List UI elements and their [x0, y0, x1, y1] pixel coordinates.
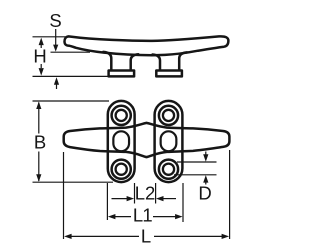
ground line [33, 75, 110, 77]
L2 left arrow stem [112, 198, 129, 200]
hole bottom-right outer [159, 160, 178, 179]
H dim line upper stub [40, 44, 42, 48]
B dim line lower [38, 152, 40, 182]
left oval cutout [113, 131, 129, 151]
hole top-left inner [116, 110, 127, 121]
thin dimension / extension lines [33, 29, 230, 239]
right leg left side [153, 54, 161, 70]
D down arrow [203, 154, 208, 162]
D bottom arrow stem [205, 182, 207, 185]
H down arrow [39, 68, 44, 76]
L1 dim line left [112, 216, 131, 218]
svg-text:D: D [198, 183, 211, 204]
svg-text:S: S [49, 10, 61, 31]
L1 right ext line [182, 183, 184, 222]
svg-text:L2: L2 [135, 183, 156, 204]
L left ext line [63, 152, 65, 239]
plan-view horn bar [64, 123, 230, 157]
D up arrow [203, 175, 208, 183]
left leg right side [131, 54, 139, 70]
L1 left arrow [108, 214, 116, 219]
L dim line left [70, 235, 139, 237]
L right ext line [229, 150, 231, 239]
svg-text:L1: L1 [133, 205, 152, 226]
svg-text:L: L [141, 226, 151, 247]
B up arrow [36, 102, 41, 110]
L left arrow [64, 234, 72, 239]
H up arrow [39, 38, 44, 46]
B dim line upper [38, 103, 40, 134]
left foot [109, 71, 135, 77]
B top ext line [33, 100, 110, 102]
B down arrow [36, 174, 41, 182]
L2 right arrow [156, 196, 164, 201]
L dim line right [154, 235, 223, 237]
svg-text:B: B [34, 132, 46, 153]
L2 right ext line [155, 183, 157, 204]
cleat horn (side view) [65, 36, 229, 55]
right pad [155, 101, 183, 182]
left pad [108, 101, 135, 182]
S top extension line [33, 36, 66, 38]
L2 left ext line [134, 183, 136, 204]
right leg right side [179, 52, 187, 70]
right foot [156, 71, 182, 77]
D top ext line [177, 161, 217, 163]
svg-text:H: H [33, 46, 46, 67]
hole bottom-left inner [116, 164, 127, 175]
L right arrow [222, 234, 230, 239]
right oval cutout [161, 131, 177, 151]
L1 left ext line [106, 183, 108, 220]
L2 right arrow stem [163, 198, 176, 200]
H dim line lower stub [40, 64, 42, 68]
D top arrow stem [205, 152, 207, 156]
left leg left side [103, 52, 111, 70]
L1 dim line right [153, 216, 179, 218]
hole top-right outer [159, 106, 178, 125]
S down arrow [53, 45, 58, 52]
L2 left arrow [127, 196, 135, 201]
S bottom extension line [51, 51, 91, 53]
S arrow stem [55, 29, 57, 46]
hole bottom-left outer [112, 160, 131, 179]
hole top-right inner [163, 110, 174, 121]
hole bottom-right inner [163, 164, 174, 175]
ground up arrow [54, 77, 59, 85]
hole top-left outer [112, 106, 131, 125]
L1 right arrow [175, 214, 183, 219]
B bottom ext line [33, 181, 114, 183]
below-ground arrow stem [56, 85, 58, 90]
arrowheads [36, 38, 229, 239]
D bottom ext line [174, 174, 217, 176]
